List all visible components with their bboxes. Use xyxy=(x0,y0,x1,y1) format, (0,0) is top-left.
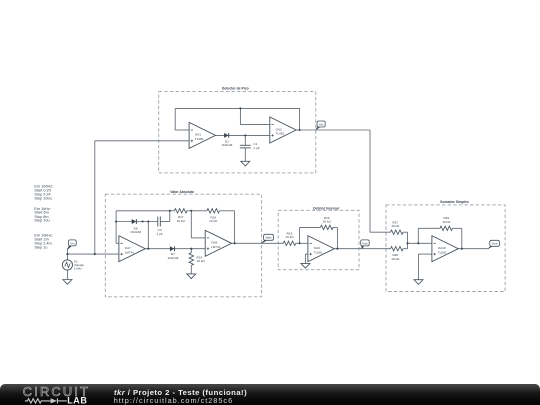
svg-text:TL081: TL081 xyxy=(195,137,204,141)
svg-text:LM741: LM741 xyxy=(125,250,135,254)
svg-text:Detector de Pico: Detector de Pico xyxy=(222,86,249,90)
svg-text:20 kΩ: 20 kΩ xyxy=(323,220,332,224)
svg-text:LAB: LAB xyxy=(67,396,87,405)
svg-text:10 kΩ: 10 kΩ xyxy=(285,235,294,239)
svg-text:TL081: TL081 xyxy=(276,132,285,136)
svg-text:Vout: Vout xyxy=(492,242,498,246)
svg-text:1N4148: 1N4148 xyxy=(167,256,178,260)
svg-text:Vdci: Vdci xyxy=(362,241,368,245)
svg-text:TL081: TL081 xyxy=(438,250,447,254)
svg-text:10 kΩ: 10 kΩ xyxy=(391,224,400,228)
svg-text:LM741: LM741 xyxy=(211,245,221,249)
svg-text:10 kΩ: 10 kΩ xyxy=(209,219,218,223)
svg-text:10 kΩ: 10 kΩ xyxy=(442,220,451,224)
svg-text:1N4148: 1N4148 xyxy=(130,230,141,234)
svg-text:Step 100u: Step 100u xyxy=(34,196,51,200)
svg-text:Vdc: Vdc xyxy=(319,122,325,126)
svg-text:Vin: Vin xyxy=(70,241,75,245)
svg-text:10 kΩ: 10 kΩ xyxy=(391,257,400,261)
svg-text:1 µF: 1 µF xyxy=(253,146,259,150)
svg-text:1 µF: 1 µF xyxy=(156,232,162,236)
svg-text:Vabs: Vabs xyxy=(265,236,272,240)
svg-text:http://circuitlab.com/ct285c6: http://circuitlab.com/ct285c6 xyxy=(114,396,233,405)
svg-text:Step 1u: Step 1u xyxy=(34,246,47,250)
svg-text:1N4148: 1N4148 xyxy=(221,143,232,147)
svg-text:10 kΩ: 10 kΩ xyxy=(197,259,206,263)
svg-text:10 kΩ: 10 kΩ xyxy=(177,219,186,223)
svg-text:Valor Absoluto: Valor Absoluto xyxy=(170,190,194,194)
svg-text:Step 10u: Step 10u xyxy=(34,219,49,223)
svg-text:Somador Simples: Somador Simples xyxy=(440,200,469,204)
svg-text:1 kHz: 1 kHz xyxy=(74,266,82,270)
svg-text:TL081: TL081 xyxy=(314,250,323,254)
svg-text:Detetor Inversor: Detetor Inversor xyxy=(313,207,340,211)
